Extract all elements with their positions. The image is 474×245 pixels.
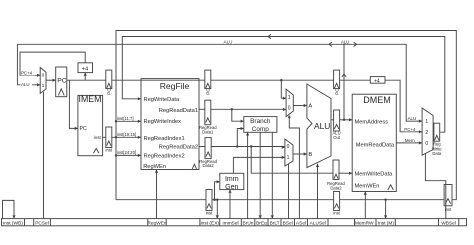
label PC+4 at WB mux [404, 127, 417, 132]
register PC EX/M [334, 70, 340, 95]
wire ALUSel [316, 164, 319, 219]
comparator Branch Comp [244, 117, 277, 133]
mux WBSel [422, 108, 433, 155]
svg-text:PC: PC [206, 88, 211, 95]
svg-text:2: 2 [425, 130, 428, 136]
register file RegFile [141, 79, 199, 171]
adder +4 F [78, 63, 93, 80]
wire inst bus WB [340, 199, 445, 201]
svg-text:0: 0 [425, 141, 428, 147]
svg-text:inst (EX): inst (EX) [201, 220, 220, 226]
wire W4 PC+4 to PCSel mux [20, 52, 85, 77]
wire RegReadData2 [199, 146, 205, 148]
svg-text:Data2: Data2 [330, 186, 342, 191]
svg-text:1: 1 [288, 95, 291, 101]
svg-text:IMEM: IMEM [79, 94, 102, 104]
wire ALU M to MemAddress [340, 118, 353, 121]
wire inst to ImmGen [213, 180, 220, 201]
svg-text:RegReadIndex2: RegReadIndex2 [144, 154, 185, 160]
svg-text:RegWriteData: RegWriteData [144, 97, 180, 103]
svg-text:inst: inst [445, 207, 452, 212]
svg-text:ASel: ASel [296, 220, 306, 226]
svg-text:ALU: ALU [224, 40, 233, 45]
register PC F/D [106, 70, 112, 95]
control strip box [2, 219, 467, 226]
svg-text:inst (M): inst (M) [378, 220, 394, 226]
svg-text:ALU: ALU [21, 82, 30, 87]
svg-text:ImmSel: ImmSel [222, 220, 238, 226]
label PCSel [35, 220, 49, 226]
wire PC bus F [67, 79, 106, 81]
wire RegReadData1 [199, 108, 205, 110]
mux ASel [286, 89, 293, 117]
wire rs2 to BranchComp [237, 127, 244, 147]
svg-text:Data2: Data2 [203, 163, 215, 168]
memory DMEM [352, 94, 396, 191]
svg-text:MemWriteData: MemWriteData [355, 172, 394, 178]
register Reg Write Data M/WB [432, 123, 442, 156]
svg-text:inst: inst [333, 210, 340, 215]
svg-text:A: A [308, 104, 312, 110]
generator Imm Gen [220, 173, 244, 191]
register PC D/EX [205, 70, 211, 95]
wire inst bus EX [116, 199, 206, 201]
label ALU on W3 near junction [341, 40, 349, 45]
adder +4 M [370, 77, 385, 85]
wire rs1 to BranchComp [232, 109, 244, 122]
svg-text:0: 0 [287, 144, 290, 150]
wire inst WB loop [3, 200, 16, 218]
mux PCSel [40, 67, 46, 93]
svg-text:0: 0 [42, 73, 45, 79]
wire WBSel select [425, 153, 445, 218]
wire PC to IMEM [69, 80, 78, 130]
svg-text:inst[24:20]: inst[24:20] [117, 150, 136, 155]
svg-text:Data: Data [432, 151, 442, 156]
svg-text:inst: inst [94, 135, 102, 140]
label BSel [283, 220, 293, 226]
wire rs2 to MemWriteData [251, 147, 333, 174]
svg-text:Out: Out [333, 135, 341, 140]
svg-text:Mem: Mem [405, 138, 415, 143]
svg-text:inst[11:7]: inst[11:7] [117, 116, 134, 121]
wire inst bus M [212, 199, 334, 201]
label MemRW [355, 220, 374, 226]
svg-text:PC: PC [80, 126, 87, 132]
label PC+4 [21, 70, 36, 75]
label ImmSel [222, 220, 238, 226]
label inst (WB) [3, 220, 23, 226]
svg-text:B: B [308, 152, 312, 158]
label BrLT [270, 220, 280, 226]
wire mux to PC [46, 79, 56, 82]
register PC [56, 67, 67, 97]
svg-text:PC: PC [57, 77, 67, 84]
svg-text:WBSel: WBSel [441, 220, 456, 226]
memory IMEM [78, 94, 103, 156]
label ALUSel [310, 220, 326, 226]
label ASel [296, 220, 306, 226]
svg-text:+4: +4 [374, 78, 380, 84]
label inst (M) [378, 220, 394, 226]
alu ALU [307, 84, 331, 168]
wire ASel select [288, 116, 299, 219]
label ALU at WB mux [407, 116, 417, 121]
wire Amux out to ALU A [293, 104, 307, 107]
register RegReadData1 D/EX [199, 100, 217, 134]
svg-text:DMEM: DMEM [363, 95, 391, 105]
wire ImmSel [228, 190, 231, 219]
wire PC to Amux input1 [281, 80, 286, 100]
svg-text:BrEq: BrEq [256, 220, 267, 226]
register inst EX/M [333, 192, 340, 216]
label inst 19:15 [117, 132, 136, 137]
svg-text:RegWEn: RegWEn [147, 220, 167, 226]
wire inst 11:7 to RegWriteIndex [116, 116, 141, 123]
svg-text:1: 1 [425, 119, 428, 125]
wire PC bus M to +4 [340, 79, 371, 81]
svg-text:Imm: Imm [225, 176, 239, 183]
svg-text:inst[19:15]: inst[19:15] [117, 132, 136, 137]
svg-text:PC: PC [107, 88, 112, 95]
svg-text:RegWEn: RegWEn [143, 164, 166, 170]
wire IMEM inst out [103, 136, 106, 138]
svg-text:PC+4: PC+4 [404, 127, 416, 132]
svg-text:RegReadData1: RegReadData1 [159, 108, 198, 114]
label ALU on W3 left [223, 39, 234, 44]
svg-text:Data1: Data1 [202, 129, 214, 134]
wire ALU out [331, 119, 334, 121]
svg-text:ALU: ALU [314, 121, 330, 131]
wire inst 24:20 to RegReadIndex2 [116, 150, 141, 157]
wire W1 inst WB feedback top [116, 31, 456, 200]
svg-text:0: 0 [288, 106, 291, 112]
register inst F/D [106, 127, 113, 153]
svg-text:RegWriteIndex: RegWriteIndex [144, 119, 182, 125]
wire PC bus EX [211, 79, 334, 81]
wire inst EX tap [216, 200, 219, 219]
svg-text:ALU: ALU [408, 116, 417, 121]
wire inst M tap [384, 200, 387, 219]
label inst (EX) [201, 220, 220, 226]
register inst D/EX [206, 190, 213, 216]
svg-text:ALU: ALU [341, 40, 349, 45]
svg-text:MemRW: MemRW [355, 220, 374, 226]
label RegWEn [147, 220, 167, 226]
register inst M/WB [444, 185, 452, 213]
register RegReadData2 EX/M [327, 160, 345, 191]
mux BSel [285, 139, 293, 166]
svg-text:Gen: Gen [225, 184, 238, 191]
label WBSel [441, 220, 456, 226]
wire W3 ALU feedback [17, 42, 422, 123]
svg-text:inst (WB): inst (WB) [3, 220, 23, 226]
svg-text:RegReadIndex1: RegReadIndex1 [144, 136, 185, 142]
svg-text:1: 1 [42, 83, 45, 89]
wire RegWEn [155, 170, 158, 219]
svg-text:PC: PC [334, 88, 339, 95]
svg-text:MemWEn: MemWEn [355, 183, 380, 189]
wire rs2 bus EX [211, 145, 285, 149]
svg-text:PC+4: PC+4 [21, 71, 33, 76]
svg-text:inst: inst [206, 211, 213, 216]
register RegReadData2 D/EX [199, 138, 217, 169]
wire BrUn [246, 132, 249, 218]
wire Mem to WB mux [396, 141, 422, 144]
wire inst D vertical bus [112, 120, 141, 156]
svg-text:Branch: Branch [250, 118, 271, 125]
wire W2 RegWriteData feedback [122, 34, 445, 132]
svg-text:MemReadData: MemReadData [356, 142, 395, 148]
svg-text:BrUn: BrUn [243, 220, 254, 226]
wire MemRW [364, 192, 367, 219]
svg-text:1: 1 [287, 155, 290, 161]
svg-text:MemAddress: MemAddress [355, 119, 389, 125]
wire BSel select [288, 164, 290, 219]
svg-text:Comp: Comp [252, 126, 269, 133]
wire BrLT [271, 132, 274, 218]
wire MemWriteData [339, 172, 352, 175]
svg-text:BrLT: BrLT [270, 220, 280, 226]
wire rs1 bus EX [211, 108, 286, 111]
register ALU Out EX/M [333, 110, 341, 140]
svg-text:inst: inst [106, 148, 113, 153]
wire Bmux out to ALU B [293, 152, 307, 155]
wire WB mux out [432, 131, 435, 133]
svg-text:PCSel: PCSel [35, 220, 49, 226]
wire ImmGen out to Bmux [233, 156, 285, 174]
wire PC+4 to WB mux [385, 80, 422, 133]
svg-text:RegReadData2: RegReadData2 [159, 145, 198, 151]
label BrEq [256, 220, 267, 226]
label Mem at WB mux [405, 138, 416, 143]
svg-text:+4: +4 [82, 67, 88, 73]
label ALU [21, 82, 33, 87]
wire PC bus D [112, 79, 205, 81]
label BrUn [243, 220, 254, 226]
wire PCSel select [43, 92, 45, 219]
svg-text:ALUSel: ALUSel [310, 220, 326, 226]
svg-text:BSel: BSel [283, 220, 293, 226]
svg-text:RegFile: RegFile [160, 81, 190, 91]
wire BrEq [259, 132, 262, 218]
